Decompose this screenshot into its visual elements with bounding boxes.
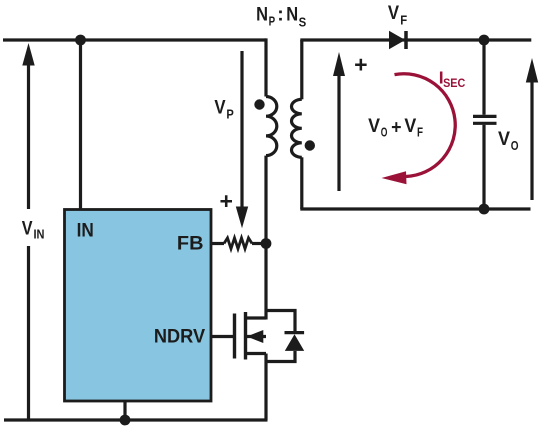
wire U1 FB pin — [211, 242, 224, 245]
svg-text:+: + — [219, 188, 232, 214]
transistor Q1 gate bar — [233, 314, 236, 359]
wire R1 to FB node — [252, 242, 266, 245]
svg-text:VIN: VIN — [22, 218, 45, 242]
wire Q1 drain connector — [246, 316, 267, 319]
wire VIN tap to U1 top — [79, 40, 82, 210]
capacitor C1 plates — [473, 116, 497, 123]
IC U1 — [65, 210, 212, 402]
wire input top rail — [3, 38, 266, 41]
node ground — [120, 415, 131, 426]
diode D1 VF cathode bar — [404, 31, 408, 49]
annotation arrow VP — [236, 51, 248, 228]
wire primary top lead — [265, 40, 267, 97]
wire secondary bottom lead — [300, 157, 303, 209]
svg-text:FB: FB — [177, 232, 204, 254]
svg-text:VO+VF: VO+VF — [368, 115, 423, 140]
transformer T1 primary dot — [254, 99, 264, 109]
transformer T1 primary winding — [266, 97, 277, 156]
wire primary bottom lead — [264, 156, 267, 244]
wire ground rail — [4, 418, 268, 421]
svg-text:VF: VF — [388, 2, 407, 27]
svg-text:IN: IN — [77, 220, 94, 242]
transistor Q1 source arrow — [246, 330, 267, 343]
wire U1 NDRV pin to Q1 gate — [211, 335, 233, 338]
svg-text:+: + — [354, 51, 367, 77]
annotation arrow VO — [526, 58, 538, 200]
transformer T1 secondary dot — [305, 140, 315, 150]
transformer T1 secondary winding — [291, 99, 301, 157]
wire output bottom rail — [300, 207, 530, 210]
diode D2 body-diode branch wires — [266, 311, 295, 362]
wire Q1 source to ground rail — [264, 354, 267, 421]
svg-text:VP: VP — [214, 97, 234, 122]
node FB junction — [261, 238, 272, 249]
diode D2 triangle — [285, 334, 304, 351]
wire secondary top lead — [300, 40, 303, 99]
transistor Q1 channel bar — [244, 312, 247, 360]
node VIN tap — [75, 35, 86, 46]
current arc ISEC — [382, 74, 456, 185]
svg-text:NP:NS: NP:NS — [256, 3, 306, 29]
diode D2 cathode bar — [285, 331, 305, 334]
annotation arrow secondary plus — [333, 52, 345, 191]
wire U1 ground pin — [123, 401, 126, 420]
annotation arrow VIN — [22, 43, 34, 420]
resistor R1 — [224, 238, 252, 249]
wire output top rail — [300, 38, 531, 41]
node output bottom — [479, 204, 490, 215]
node output top — [479, 35, 490, 46]
capacitor C1 top lead — [482, 40, 485, 115]
wire FB node to Q1 drain — [264, 244, 267, 320]
svg-text:ISEC: ISEC — [439, 68, 466, 90]
capacitor C1 bottom lead — [482, 125, 485, 209]
diode D1 VF triangle — [389, 31, 405, 49]
svg-text:NDRV: NDRV — [154, 326, 205, 348]
wire Q1 source connector — [246, 352, 267, 355]
svg-text:VO: VO — [498, 128, 519, 153]
